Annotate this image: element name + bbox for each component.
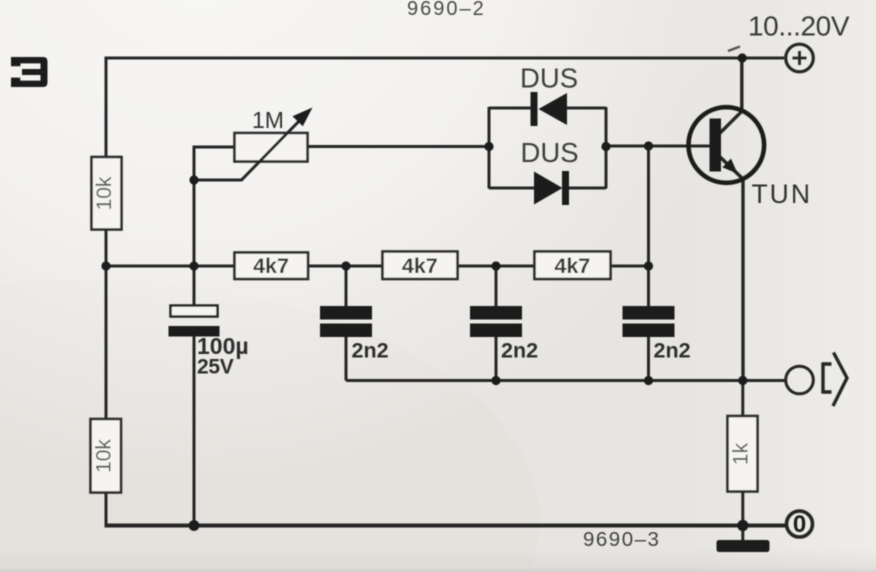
svg-text:25V: 25V [197,356,234,379]
svg-text:9690–2: 9690–2 [407,0,486,20]
svg-text:9690–3: 9690–3 [583,528,660,551]
svg-text:DUS: DUS [520,63,578,94]
svg-text:DUS: DUS [521,137,579,168]
svg-text:10k: 10k [93,439,116,473]
svg-text:2n2: 2n2 [501,339,538,363]
svg-text:4k7: 4k7 [402,254,438,278]
svg-text:2n2: 2n2 [352,339,389,363]
svg-text:TUN: TUN [752,179,812,209]
svg-text:4k7: 4k7 [554,254,590,278]
svg-text:1k: 1k [730,442,753,465]
svg-text:1M: 1M [252,107,284,133]
svg-text:4k7: 4k7 [253,254,289,278]
svg-text:0: 0 [793,511,806,538]
svg-text:2n2: 2n2 [654,339,691,363]
svg-text:10k: 10k [93,176,116,210]
svg-text:10...20V: 10...20V [748,11,850,42]
